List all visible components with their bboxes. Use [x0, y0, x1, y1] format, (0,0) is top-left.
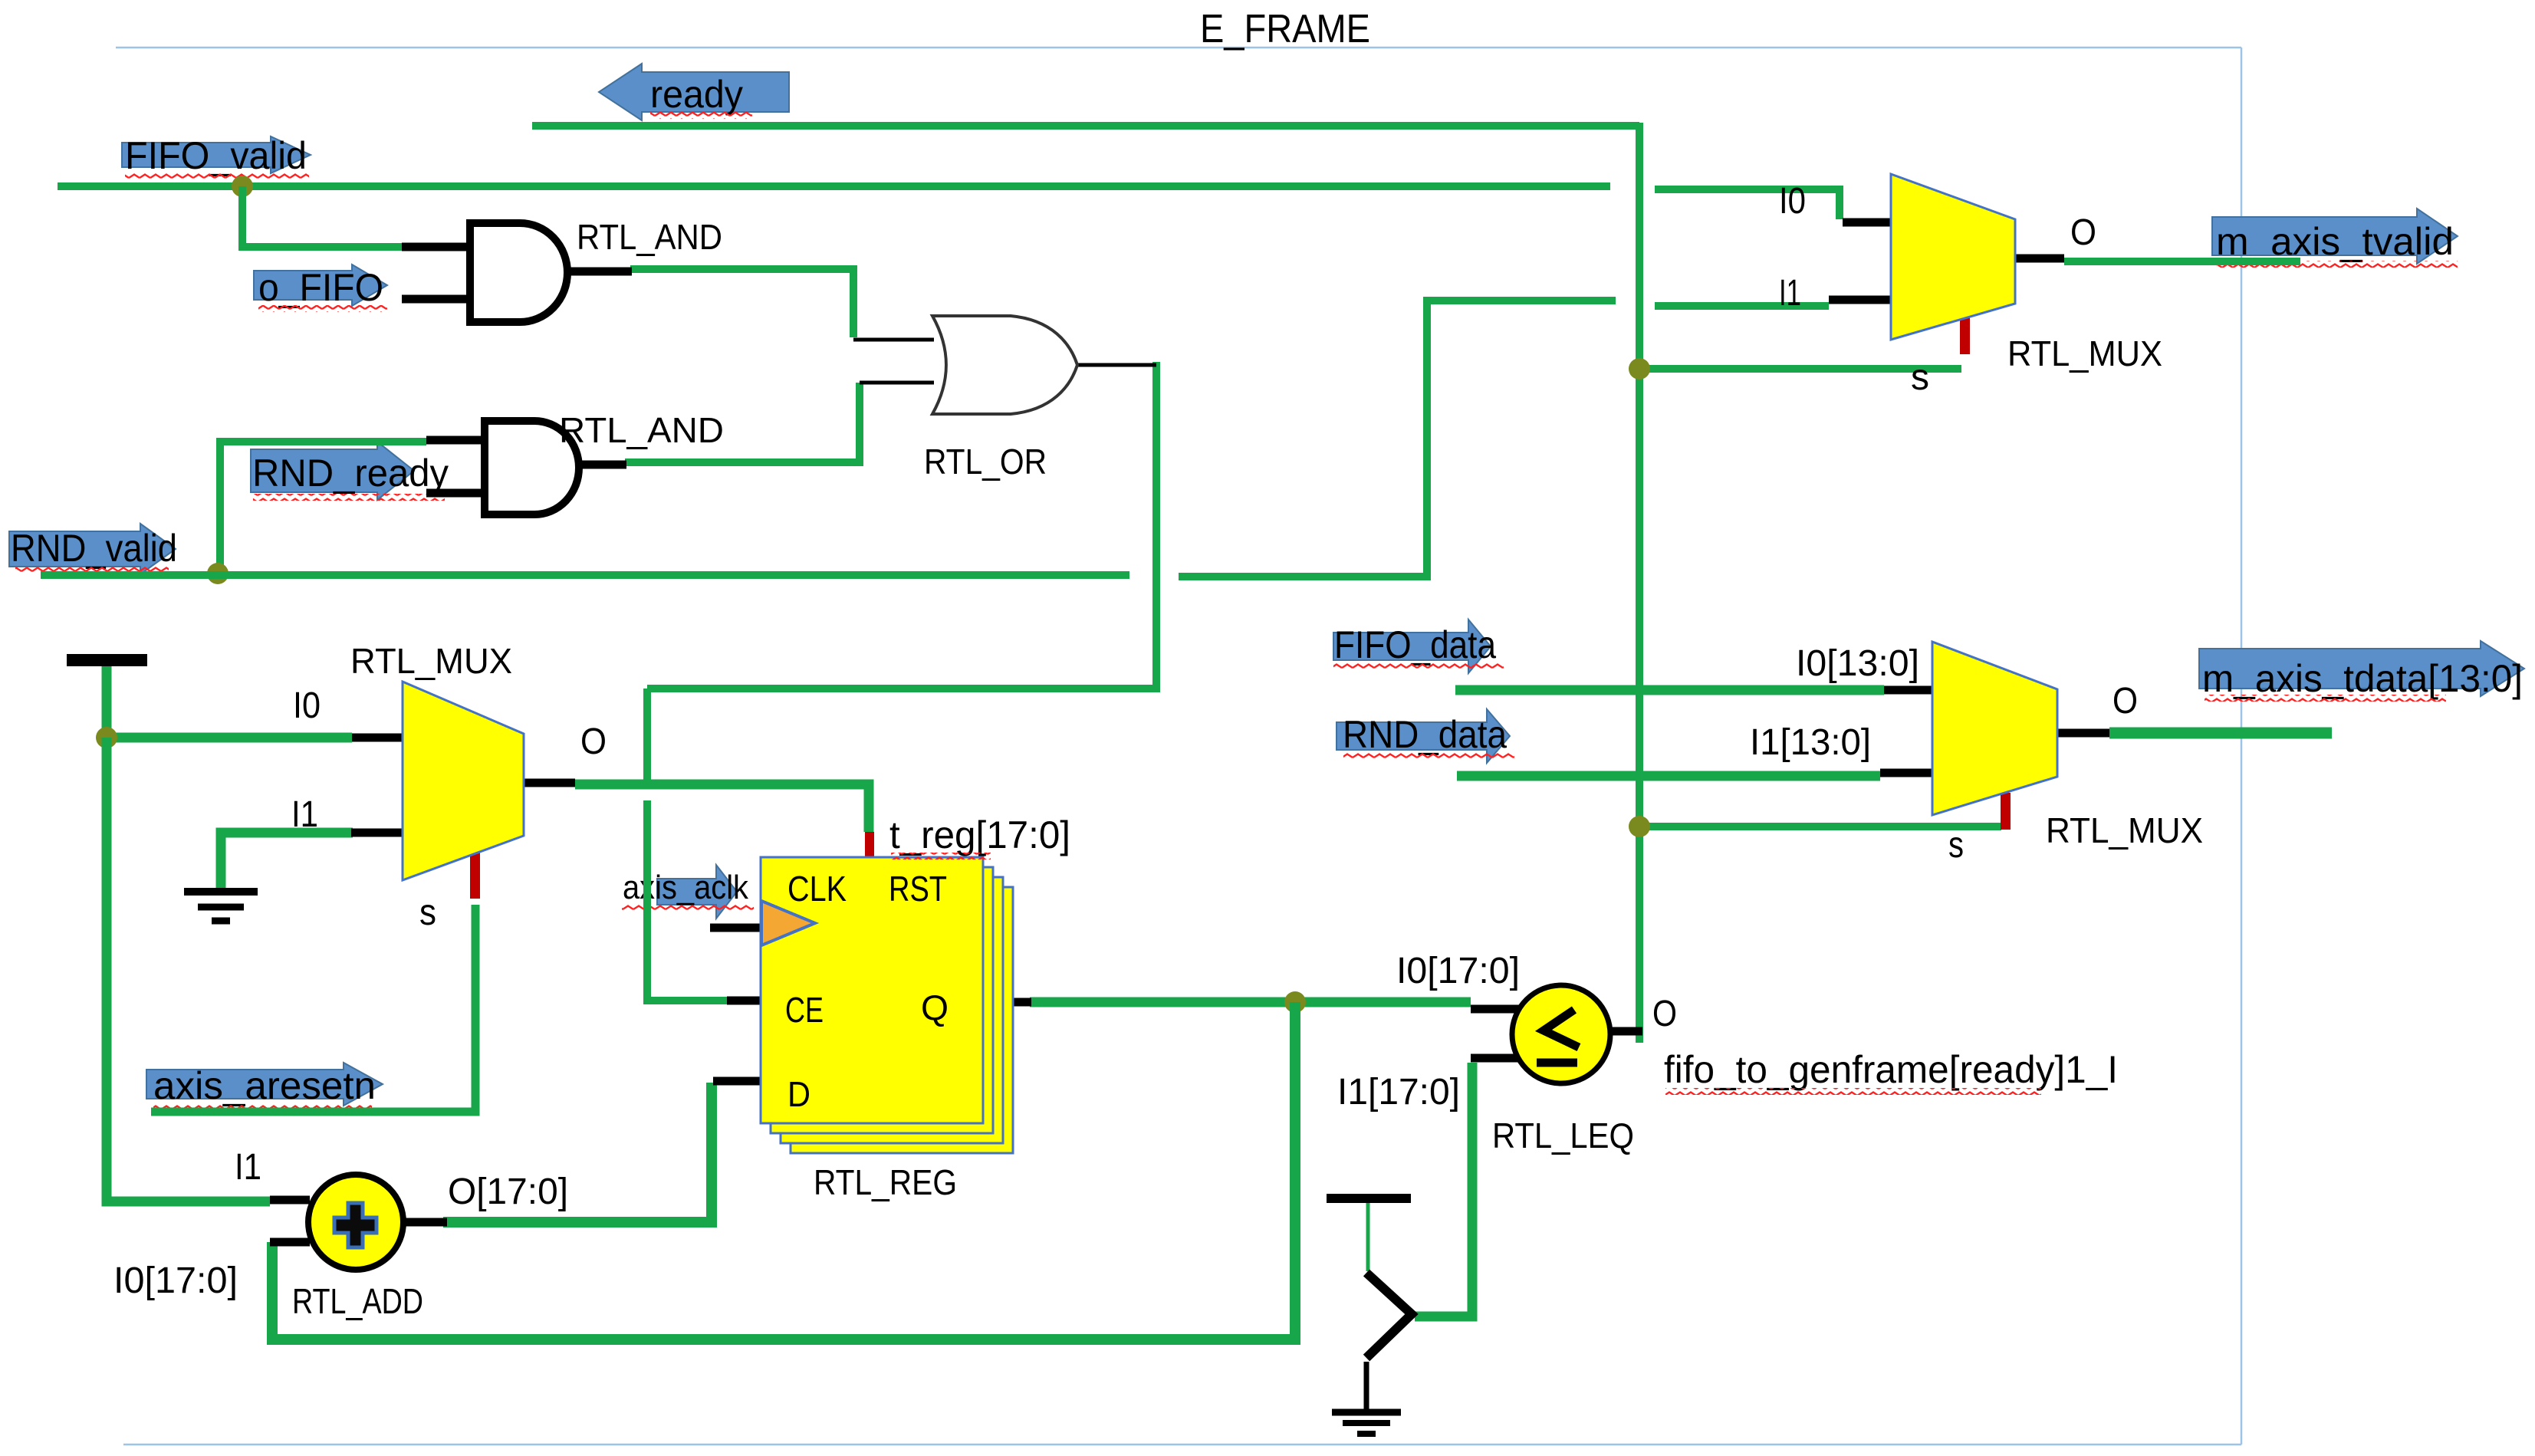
register RTL_REG stacked sheets: [791, 887, 1013, 1153]
svg-text:I1: I1: [291, 794, 318, 835]
svg-text:RND_ready: RND_ready: [252, 452, 449, 495]
input port arrow RND_ready: [251, 442, 414, 500]
wire left mux output to t_reg RST: [575, 784, 869, 832]
wire RND_ready AND2 in1 from RND_valid branch: [220, 442, 426, 567]
svg-text:RTL_ADD: RTL_ADD: [292, 1281, 423, 1321]
input port arrow RND_data: [1337, 709, 1510, 763]
svg-text:m_axis_tvalid: m_axis_tvalid: [2216, 220, 2454, 263]
svg-text:I0[17:0]: I0[17:0]: [113, 1260, 238, 1301]
svg-text:t_reg[17:0]: t_reg[17:0]: [889, 813, 1070, 856]
svg-text:O: O: [1652, 994, 1677, 1034]
wire OR output down and left: [647, 362, 1156, 689]
pin stub OR out: [1077, 363, 1156, 367]
svg-text:FIFO_valid: FIFO_valid: [125, 134, 307, 177]
wire ready vertical bus down to RTL_LEQ output: [1636, 123, 1643, 1043]
select stub (red) data mux: [2001, 793, 2011, 830]
wire select net to data mux s: [1639, 823, 2001, 830]
svg-text:m_axis_tdata[13:0]: m_axis_tdata[13:0]: [2202, 657, 2523, 700]
svg-text:RTL_AND: RTL_AND: [577, 217, 722, 257]
pin stub LEQ I1: [1471, 1054, 1520, 1063]
svg-text:RTL_MUX: RTL_MUX: [2046, 810, 2203, 850]
clock triangle of RTL_REG: [761, 901, 815, 945]
svg-text:I1[17:0]: I1[17:0]: [1337, 1072, 1460, 1113]
svg-text:E_FRAME: E_FRAME: [1200, 7, 1370, 51]
constant selector switch diagonals: [1366, 1273, 1412, 1358]
wire RTL_LEQ I1 from constant switch: [1415, 1063, 1472, 1316]
output port arrow m_axis_tvalid: [2212, 209, 2458, 264]
mux RTL_MUX left (t_next select): [403, 682, 524, 880]
spellcheck squiggle FIFO_data: [1333, 662, 1504, 669]
plus symbol of RTL_ADD: [334, 1203, 376, 1247]
pin stub AND1 in1: [402, 243, 470, 251]
wire constant net down to adder I1: [107, 738, 270, 1201]
pin stub t_reg CE: [727, 997, 762, 1005]
svg-text:RTL_MUX: RTL_MUX: [350, 641, 512, 681]
input port arrow FIFO_data: [1333, 620, 1491, 673]
wire OR output vertical upper piece to crossing: [643, 689, 651, 784]
wire AND2 output to OR in2: [625, 383, 860, 462]
pin stub top mux O: [2015, 255, 2064, 263]
ground symbol for left mux I1: [184, 888, 258, 896]
pin stub top mux I0: [1843, 219, 1895, 227]
and gate RTL_AND upper (FIFO_valid & o_FIFO): [470, 223, 567, 322]
svg-text:o_FIFO: o_FIFO: [258, 266, 383, 309]
svg-text:s: s: [1911, 357, 1929, 398]
pin stub LEQ I0: [1471, 1005, 1520, 1014]
pin stub t_reg CLK: [710, 924, 762, 932]
node junction on Q net: [1284, 991, 1306, 1013]
spellcheck squiggle RND_ready: [253, 494, 445, 501]
node junction on FIFO_valid: [232, 176, 253, 197]
pin stub t_reg D: [713, 1077, 762, 1086]
constant tie bar above switch (RTL_LEQ I1): [1327, 1194, 1411, 1203]
less-equal symbol of RTL_LEQ: [1544, 1010, 1579, 1047]
pin stub adder I0: [270, 1238, 310, 1247]
comparator RTL_LEQ circle: [1512, 985, 1610, 1083]
svg-text:RST: RST: [889, 869, 947, 909]
svg-text:I0: I0: [293, 685, 321, 726]
svg-text:RTL_MUX: RTL_MUX: [2007, 334, 2162, 373]
svg-text:RTL_LEQ: RTL_LEQ: [1492, 1116, 1634, 1155]
pin stub data mux I1: [1880, 769, 1937, 777]
svg-text:D: D: [787, 1074, 810, 1114]
spellcheck squiggle t_reg: [891, 853, 991, 859]
pin stub AND2 out: [577, 461, 626, 469]
wire RND_valid to top mux I1: [1655, 302, 1829, 310]
spellcheck squiggle o_FIFO: [258, 305, 387, 312]
pin stub AND1 out: [566, 268, 632, 276]
svg-text:RTL_OR: RTL_OR: [924, 442, 1047, 481]
mux RTL_MUX top (m_axis_tvalid): [1891, 174, 2015, 340]
svg-text:s: s: [1948, 825, 1964, 866]
wire RND_data to data mux I1: [1457, 771, 1880, 781]
pin stub adder I1: [270, 1196, 310, 1205]
E_FRAME module border right: [2241, 48, 2243, 1444]
register RTL_REG body: [761, 857, 983, 1123]
E_FRAME module border bottom: [123, 1444, 2241, 1446]
spellcheck squiggle axis_aresetn: [153, 1103, 372, 1110]
pin stub t_reg Q: [983, 998, 1031, 1007]
wire t_reg Q output: [1030, 998, 1471, 1007]
spellcheck squiggle axis_aclk: [622, 904, 754, 911]
node junction select net bottom: [1629, 816, 1650, 837]
svg-text:O[17:0]: O[17:0]: [448, 1172, 568, 1212]
wire Q feedback down-left-up to adder I0: [272, 1002, 1295, 1339]
E_FRAME module border top: [116, 47, 2241, 49]
wire select net to top mux s: [1639, 365, 1961, 373]
svg-text:I0[13:0]: I0[13:0]: [1796, 643, 1919, 684]
svg-text:O: O: [580, 721, 607, 762]
svg-text:I1: I1: [1779, 273, 1801, 314]
wire ready net from port to right vertical: [532, 122, 1639, 130]
spellcheck squiggle m_axis_tdata: [2205, 695, 2446, 702]
wire FIFO_valid horizontal: [58, 182, 1610, 190]
svg-text:I1: I1: [235, 1147, 261, 1188]
pin stub left mux I0: [352, 734, 405, 742]
spellcheck squiggle m_axis_tvalid: [2216, 261, 2458, 268]
pin stub left mux I1: [351, 829, 404, 837]
wire OR output vertical lower piece to CE: [647, 800, 728, 1001]
pin stub top mux I1: [1829, 296, 1895, 304]
svg-text:RND_data: RND_data: [1343, 713, 1507, 756]
svg-text:I0: I0: [1779, 181, 1806, 222]
input port arrow axis_aclk: [657, 865, 737, 919]
pin stub LEQ O: [1609, 1027, 1642, 1036]
wire AND1 output to OR in1: [630, 269, 853, 337]
wire ground to left mux I1: [221, 833, 353, 889]
pin stub OR in1: [853, 338, 934, 342]
svg-text:axis_aclk: axis_aclk: [623, 869, 749, 906]
wire constant-1 stub above switch: [1366, 1203, 1370, 1271]
ground lead below switch: [1364, 1362, 1369, 1409]
svg-text:ready: ready: [650, 73, 743, 116]
svg-text:I0[17:0]: I0[17:0]: [1396, 951, 1520, 991]
wire adder output to t_reg D: [443, 1083, 712, 1222]
select stub (red) top mux: [1960, 316, 1970, 354]
spellcheck squiggle RND_valid: [15, 566, 169, 573]
wire constant to left mux I0: [107, 664, 352, 738]
input port arrow axis_aresetn: [146, 1063, 383, 1106]
pin stub AND2 in2: [426, 489, 485, 498]
node junction on RND_valid: [207, 563, 229, 584]
svg-text:RTL_REG: RTL_REG: [814, 1162, 957, 1202]
svg-text:RTL_AND: RTL_AND: [559, 410, 724, 450]
input port arrow FIFO_valid: [122, 136, 311, 173]
and gate RTL_AND lower (RND_ready & RND_valid): [485, 421, 579, 514]
pin stub data mux I0: [1884, 686, 1937, 695]
svg-text:I1[13:0]: I1[13:0]: [1750, 722, 1871, 763]
wire RND_valid horizontal left segment: [41, 571, 1129, 579]
svg-text:fifo_to_genframe[ready]1_I: fifo_to_genframe[ready]1_I: [1664, 1048, 2118, 1091]
svg-text:O: O: [2112, 681, 2138, 721]
ground symbol below switch: [1332, 1409, 1401, 1416]
node junction on constant net: [96, 727, 117, 748]
output port arrow ready: [599, 64, 789, 120]
spellcheck squiggle fifo_to_genframe: [1665, 1088, 2041, 1095]
wire FIFO_data to data mux I0: [1455, 685, 1884, 695]
svg-text:CE: CE: [785, 990, 824, 1030]
wire top mux output to m_axis_tvalid: [2064, 258, 2300, 265]
or gate RTL_OR: [932, 316, 1077, 414]
svg-text:CLK: CLK: [787, 869, 847, 909]
constant tie bar for left mux I0 and adder I1: [67, 654, 147, 666]
pin stub left mux O: [524, 779, 575, 787]
input port arrow o_FIFO: [254, 265, 387, 306]
svg-text:FIFO_data: FIFO_data: [1334, 623, 1496, 666]
input port arrow RND_valid: [9, 524, 176, 574]
adder RTL_ADD circle: [308, 1175, 403, 1270]
node junction select net top: [1629, 358, 1650, 380]
spellcheck squiggle ready: [650, 112, 752, 119]
pin stub OR in2: [860, 381, 934, 385]
spellcheck squiggle FIFO_valid: [125, 172, 309, 179]
pin stub data mux O: [2057, 729, 2109, 738]
svg-text:RND_valid: RND_valid: [11, 527, 177, 570]
pin stub adder O: [403, 1218, 447, 1227]
select stub (red) left mux: [865, 832, 874, 860]
wire axis_aresetn to left mux select: [151, 905, 475, 1112]
spellcheck squiggle RND_data: [1343, 753, 1514, 760]
wire FIFO_valid branch to RTL_AND in1: [242, 186, 402, 247]
svg-text:s: s: [419, 892, 436, 933]
output port arrow m_axis_tdata[13:0]: [2199, 641, 2524, 696]
svg-text:axis_aresetn: axis_aresetn: [153, 1064, 376, 1107]
wire RND_valid horizontal right segment and up: [1179, 301, 1616, 577]
svg-text:O: O: [2070, 212, 2096, 253]
wire data mux output to m_axis_tdata: [2109, 728, 2332, 739]
pin stub AND2 in1: [426, 436, 485, 445]
pin stub AND1 in2: [402, 295, 470, 304]
mux RTL_MUX data (m_axis_tdata): [1932, 642, 2057, 815]
wire FIFO_valid continuation to top mux I0: [1655, 189, 1840, 219]
svg-text:Q: Q: [921, 988, 949, 1027]
